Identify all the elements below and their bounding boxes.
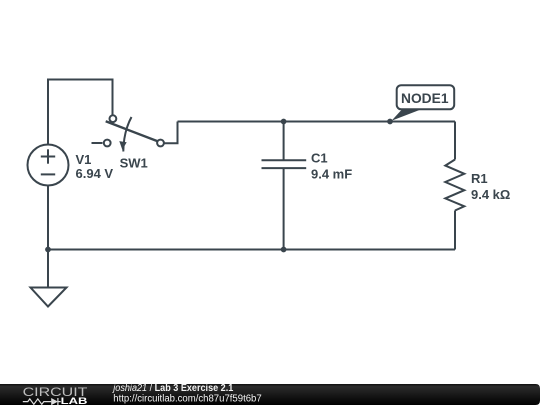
switch SW1	[92, 115, 164, 151]
svg-text:SW1: SW1	[120, 156, 148, 171]
CircuitLab logo	[23, 385, 88, 405]
svg-text:joshia21 / Lab 3 Exercise 2.1: joshia21 / Lab 3 Exercise 2.1	[111, 383, 233, 394]
wire R1 bottom lead	[454, 211, 456, 250]
wire ground stem	[47, 250, 49, 288]
wire switch output to main rail	[164, 122, 178, 144]
footer title text	[111, 383, 262, 404]
node NODE1 callout	[392, 85, 455, 121]
wire C1 top lead	[283, 122, 285, 161]
svg-text:http://circuitlab.com/ch87u7f5: http://circuitlab.com/ch87u7f59t6b7	[113, 394, 262, 405]
node junction dot C1 bottom	[281, 247, 287, 253]
node junction dot C1 top	[281, 119, 287, 125]
capacitor C1	[262, 160, 307, 168]
wire bottom rail	[48, 249, 455, 251]
svg-text:LAB: LAB	[61, 395, 88, 405]
node junction dot NODE1	[387, 119, 393, 125]
node junction dot bottom left	[45, 247, 51, 253]
wire R1 top lead	[454, 122, 456, 160]
wire V1 top lead and top-left corner	[48, 80, 113, 145]
wire main top rail	[178, 121, 456, 123]
wire V1 bottom lead	[47, 186, 49, 250]
svg-text:9.4 kΩ: 9.4 kΩ	[471, 187, 510, 202]
svg-text:6.94 V: 6.94 V	[76, 166, 114, 181]
voltage source V1	[28, 145, 69, 186]
wire C1 bottom lead	[283, 168, 285, 249]
svg-text:R1: R1	[471, 171, 488, 186]
svg-text:V1: V1	[76, 152, 92, 167]
ground	[31, 288, 67, 307]
footer bar	[0, 384, 540, 405]
svg-text:9.4 mF: 9.4 mF	[311, 167, 352, 182]
resistor R1	[445, 160, 464, 211]
svg-text:C1: C1	[311, 151, 328, 166]
svg-text:NODE1: NODE1	[401, 90, 449, 106]
